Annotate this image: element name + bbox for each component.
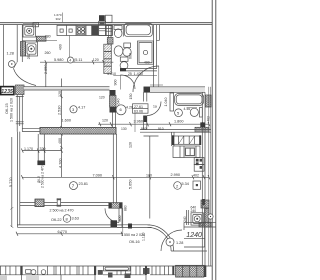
- fridge dark: [92, 26, 98, 36]
- balcony door arc: [105, 208, 119, 222]
- svg-text:320: 320: [40, 147, 46, 151]
- wall hatch pier left: [20, 42, 25, 57]
- tub/toilet divider: [122, 25, 124, 37]
- svg-text:ДК-2: ДК-2: [37, 176, 41, 183]
- svg-text:3.960: 3.960: [134, 120, 144, 124]
- leader line: [187, 107, 198, 109]
- svg-text:1 550 на 2 020: 1 550 на 2 020: [121, 233, 145, 237]
- dim ext line right: [122, 208, 124, 234]
- right inner wall: [202, 92, 205, 266]
- wall B hatched: [40, 127, 116, 134]
- vertical dim 2.850: [45, 62, 47, 88]
- small box at top-left wall: [33, 23, 39, 27]
- svg-text:250: 250: [27, 54, 31, 60]
- area box: [133, 104, 149, 113]
- bathtub 1: [124, 23, 152, 36]
- svg-text:6.770: 6.770: [58, 230, 68, 234]
- sink2 dark: [185, 148, 195, 157]
- room6 door arc: [133, 66, 159, 92]
- kitchen counter row: [57, 25, 113, 35]
- svg-text:5.650: 5.650: [129, 179, 133, 189]
- white box above wall: [106, 15, 113, 22]
- shower cabinet: [138, 41, 154, 64]
- bathroom5 top wall: [150, 87, 205, 93]
- svg-text:120: 120: [146, 173, 152, 177]
- stove 4 burners: [77, 26, 85, 35]
- extension line: [134, 113, 136, 132]
- dim ext line kitchen: [68, 36, 70, 63]
- strip cells: [41, 270, 46, 275]
- svg-text:400: 400: [144, 61, 150, 65]
- svg-text:1.28: 1.28: [7, 52, 14, 56]
- svg-text:2.850: 2.850: [44, 64, 48, 74]
- svg-text:880: 880: [123, 205, 127, 211]
- junction hatch box: [107, 38, 113, 45]
- svg-text:130: 130: [121, 127, 127, 131]
- svg-text:4.610: 4.610: [107, 72, 116, 76]
- room4 circle: [68, 57, 74, 63]
- svg-text:2 530 на 2 470: 2 530 на 2 470: [41, 165, 45, 188]
- fridge box: [193, 181, 201, 189]
- left wall upper: [17, 25, 22, 62]
- bubble bottom: [166, 238, 174, 246]
- vent shaft stack: [104, 44, 112, 51]
- wall F lower: cap + hatch pier + cap: [110, 90, 116, 96]
- entry door arc: [14, 69, 37, 86]
- svg-text:4: 4: [69, 59, 71, 63]
- right wall outer: [212, 0, 216, 280]
- stove column: [194, 158, 204, 165]
- left dim 5.770: [11, 137, 13, 227]
- sink 2 pedestal: [124, 43, 131, 48]
- svg-text:402: 402: [206, 116, 210, 122]
- svg-text:120: 120: [99, 95, 105, 99]
- svg-text:4.26: 4.26: [126, 106, 133, 110]
- counter kitchen2: [173, 146, 200, 158]
- svg-text:ОК-15: ОК-15: [5, 103, 9, 114]
- washer hatch column: [205, 209, 210, 223]
- svg-text:4.46: 4.46: [184, 107, 191, 111]
- toilet 5: [200, 108, 203, 118]
- circle 2: [174, 182, 182, 190]
- oven column: [99, 21, 106, 35]
- svg-text:1.28: 1.28: [176, 241, 183, 245]
- washer box 1: [23, 25, 36, 37]
- svg-text:7.090: 7.090: [93, 173, 103, 177]
- top wall: [0, 23, 212, 25]
- svg-text:800: 800: [118, 216, 122, 222]
- wall kitchen2 left: [172, 132, 174, 146]
- strip cell verticals left: [1, 266, 16, 275]
- svg-text:23.81: 23.81: [79, 182, 89, 186]
- niche line room6 corner: [157, 25, 160, 41]
- svg-text:1.170: 1.170: [24, 147, 33, 151]
- svg-text:2.530: 2.530: [57, 105, 61, 115]
- apartment label 1235: [1, 87, 14, 95]
- wall A horizontal: [24, 87, 110, 90]
- corner arc double: [148, 225, 174, 251]
- svg-text:63.06: 63.06: [134, 110, 143, 114]
- svg-text:1.430: 1.430: [134, 72, 144, 76]
- svg-text:240: 240: [183, 216, 187, 222]
- wall D bottom of room7: [35, 199, 44, 206]
- 1240 underline: [184, 238, 205, 240]
- svg-text:120: 120: [102, 118, 108, 122]
- svg-text:400: 400: [58, 138, 62, 144]
- svg-text:120: 120: [93, 58, 99, 62]
- bottom strip main line: [0, 265, 212, 267]
- dim line 1.170/320: [22, 150, 61, 152]
- left boundary line: [3, 25, 5, 87]
- svg-text:25: 25: [128, 72, 132, 76]
- svg-text:302: 302: [56, 17, 61, 21]
- black pier above wall: [99, 15, 105, 21]
- svg-text:240: 240: [191, 209, 197, 213]
- wall H: [144, 92, 147, 101]
- svg-text:(5.11: (5.11: [74, 58, 82, 62]
- dim 6.770: [17, 233, 123, 235]
- svg-text:1235: 1235: [1, 89, 13, 95]
- room 7 circle: [70, 182, 78, 190]
- left wall pier hatch: [16, 85, 25, 95]
- svg-text:640: 640: [116, 99, 120, 105]
- grid bubble left: [8, 61, 15, 68]
- svg-text:910: 910: [158, 127, 164, 131]
- svg-text:400: 400: [59, 44, 63, 50]
- svg-text:280: 280: [45, 35, 51, 39]
- svg-text:2.990: 2.990: [171, 173, 181, 177]
- svg-text:4.17: 4.17: [78, 106, 85, 110]
- svg-text:900: 900: [114, 80, 118, 86]
- svg-text:5.980: 5.980: [54, 58, 64, 62]
- svg-text:2 500 на 2 470: 2 500 на 2 470: [50, 209, 74, 213]
- balcony OK-16: [111, 220, 118, 227]
- door arc wall A opening: [121, 75, 135, 89]
- dimension line room4: [40, 61, 113, 63]
- svg-text:5.770: 5.770: [9, 177, 13, 187]
- strip dark box: [94, 266, 96, 275]
- room 3 circle: [70, 106, 77, 113]
- wall G bath bottom: [120, 68, 157, 71]
- svg-text:3.63: 3.63: [72, 216, 79, 220]
- svg-text:1.600: 1.600: [62, 118, 72, 122]
- balcony OK-22: [17, 225, 122, 227]
- bath5 bottom wall: [140, 130, 211, 133]
- svg-text:27.61: 27.61: [134, 105, 143, 109]
- bath5 door arc: [147, 102, 161, 116]
- svg-text:4.700: 4.700: [59, 158, 63, 168]
- door arc 1240: [161, 230, 182, 251]
- bottom strip second line: [0, 274, 176, 276]
- sink 1: [114, 46, 123, 56]
- washer box 2: [26, 42, 38, 56]
- svg-text:120: 120: [128, 142, 132, 148]
- svg-text:ОК-16: ОК-16: [129, 240, 140, 244]
- svg-text:120: 120: [58, 91, 62, 97]
- svg-text:5.34: 5.34: [182, 182, 189, 186]
- bathtub 5: [175, 93, 204, 105]
- partition T line: [144, 136, 159, 219]
- dim line bath5: [98, 123, 209, 125]
- appliance lines: [106, 26, 112, 36]
- small bubble on wall: [208, 214, 213, 219]
- shelf line: [22, 39, 57, 41]
- wall bath1/room6: [154, 25, 157, 87]
- svg-text:1.040: 1.040: [164, 98, 168, 107]
- window mullion dark: [128, 224, 132, 229]
- svg-text:ОК-22: ОК-22: [51, 218, 62, 222]
- strip tub: [104, 266, 131, 271]
- washing machine apt1240: [191, 213, 203, 225]
- wall stub C: [38, 134, 44, 161]
- svg-text:900: 900: [141, 127, 147, 131]
- vertical dim x61: [61, 79, 63, 178]
- circle 5: [175, 109, 183, 117]
- strip hatch cells: [176, 265, 205, 277]
- svg-text:1a: 1a: [153, 105, 157, 109]
- svg-text:1240: 1240: [186, 232, 202, 239]
- svg-text:150: 150: [129, 94, 133, 100]
- strip washer room: [26, 270, 31, 274]
- svg-text:600: 600: [128, 53, 132, 59]
- cabinet bath5: [170, 93, 174, 111]
- bath5 bottom-right cap: [200, 122, 205, 127]
- strip stubs below: [21, 275, 146, 280]
- wardrobe row: [173, 136, 200, 144]
- wall bar above washer: [23, 23, 38, 25]
- corridor stamp circle: [116, 105, 126, 115]
- toilet 2: [120, 57, 128, 61]
- circle 8: [63, 215, 71, 223]
- svg-text:402: 402: [193, 173, 199, 177]
- wall F kitchen/bath divider upper: [109, 25, 112, 38]
- strip wall dark: [20, 266, 22, 275]
- toilet 1 top: [114, 26, 122, 30]
- left wall window ОК-15: [17, 95, 22, 132]
- interior dim line y177: [22, 176, 209, 178]
- svg-text:1.800: 1.800: [174, 120, 184, 124]
- apt1240 hall walls: [184, 222, 216, 227]
- wall room7 right: [113, 134, 116, 204]
- cell squares: [60, 29, 63, 32]
- svg-text:1 500 на 2 020: 1 500 на 2 020: [10, 98, 14, 122]
- hatch block between washers: [36, 36, 46, 41]
- svg-text:260: 260: [45, 51, 51, 55]
